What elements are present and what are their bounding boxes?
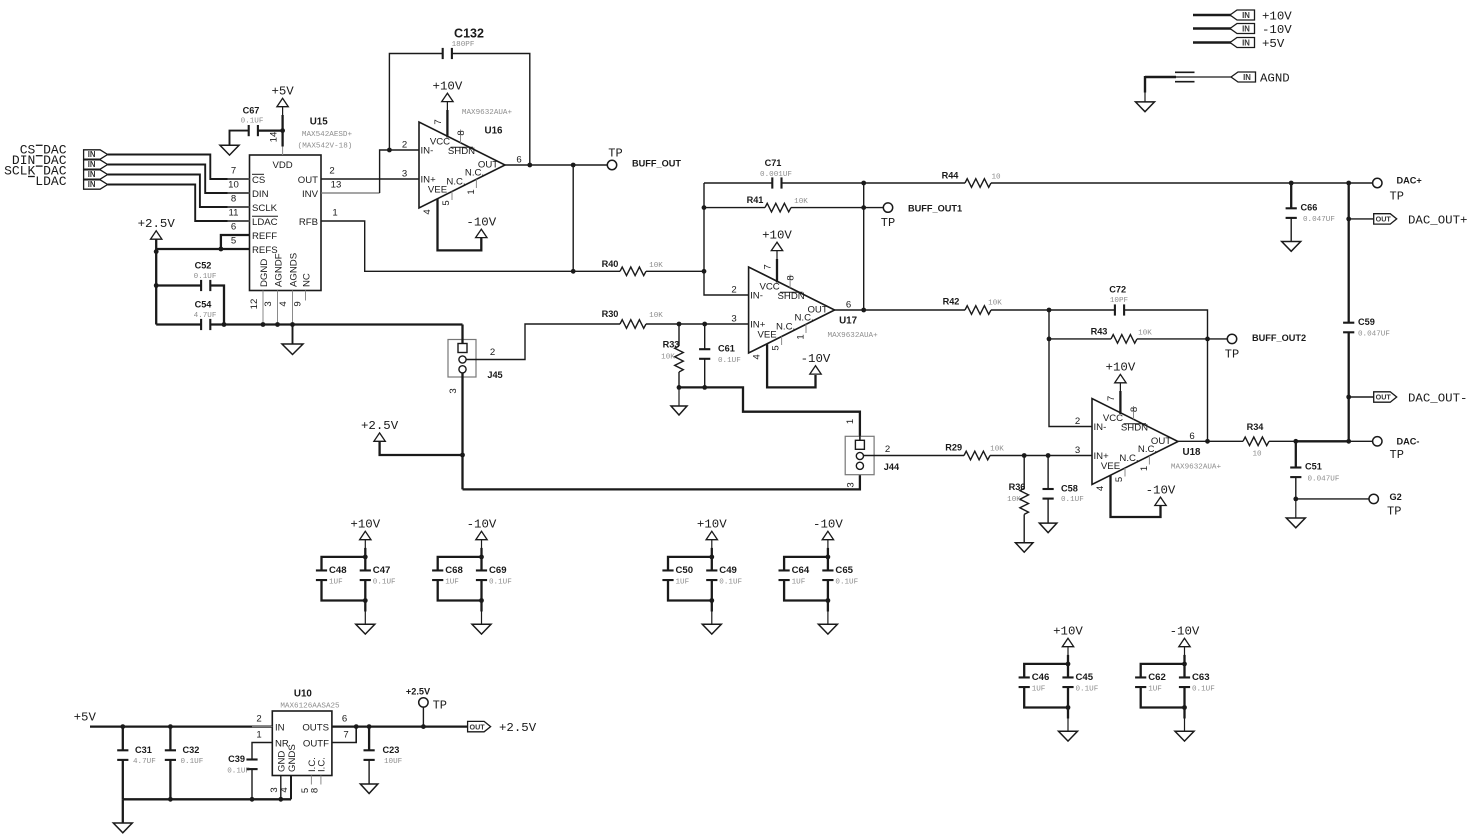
svg-text:C69: C69 xyxy=(489,565,507,576)
svg-text:IN: IN xyxy=(1242,11,1250,20)
svg-text:3: 3 xyxy=(846,482,857,487)
wire to R44 xyxy=(864,182,965,184)
power symbol -10V (decoupling group C64/C65) xyxy=(822,531,833,539)
svg-text:IN: IN xyxy=(275,722,285,733)
svg-text:2: 2 xyxy=(490,347,495,358)
svg-text:10: 10 xyxy=(991,174,1001,182)
svg-text:C61: C61 xyxy=(718,344,735,354)
port IN +5V xyxy=(1230,38,1255,48)
capacitor C54 xyxy=(200,319,202,330)
net-tie bars on AGND wire xyxy=(1175,71,1195,73)
resistor R43 xyxy=(1049,338,1111,340)
svg-text:TP: TP xyxy=(1225,348,1239,362)
svg-text:C31: C31 xyxy=(135,745,152,755)
svg-text:7: 7 xyxy=(433,119,444,124)
svg-text:NC: NC xyxy=(301,273,312,287)
capacitor C67 xyxy=(248,125,250,136)
svg-text:5: 5 xyxy=(441,200,452,205)
svg-text:C51: C51 xyxy=(1305,462,1322,472)
svg-text:10K: 10K xyxy=(661,354,675,362)
svg-text:C45: C45 xyxy=(1076,672,1094,683)
svg-text:+5V: +5V xyxy=(1262,37,1285,51)
svg-text:-10V: -10V xyxy=(801,352,831,366)
svg-text:0.1UF: 0.1UF xyxy=(241,118,264,126)
svg-text:R41: R41 xyxy=(747,195,764,205)
svg-text:5: 5 xyxy=(771,345,782,350)
svg-text:0.047UF: 0.047UF xyxy=(1358,331,1390,339)
resistor R29 xyxy=(964,451,990,460)
ground under C58 xyxy=(1039,523,1057,533)
overbar LDAC xyxy=(252,215,278,217)
svg-text:5: 5 xyxy=(1114,477,1125,482)
test point TP DAC- xyxy=(1373,437,1382,446)
capacitor C50 xyxy=(662,569,673,571)
svg-text:IN: IN xyxy=(1242,24,1250,33)
capacitor C65 xyxy=(822,569,833,571)
wire U18 OUT to R34 xyxy=(1178,440,1243,442)
U15 pin 3 AGNDF xyxy=(277,291,279,325)
svg-text:1UF: 1UF xyxy=(445,578,459,586)
svg-text:9: 9 xyxy=(293,301,304,306)
wire bottom rail to J44 pin 3 xyxy=(463,469,860,489)
wire U16 OUT down to R40 net xyxy=(572,165,574,271)
svg-text:4: 4 xyxy=(752,354,763,360)
svg-text:10K: 10K xyxy=(1138,329,1152,337)
power symbol +2.5V at J44 net xyxy=(374,433,385,441)
svg-text:7: 7 xyxy=(1106,396,1117,401)
op-amp U16 xyxy=(419,122,505,208)
power symbol +10V (decoupling group C48/C47) xyxy=(360,531,371,539)
svg-text:C132: C132 xyxy=(454,27,484,41)
svg-text:R33: R33 xyxy=(663,340,680,350)
wire U16 VEE to -10V xyxy=(438,199,482,251)
svg-text:1UF: 1UF xyxy=(1148,685,1162,693)
svg-text:5: 5 xyxy=(231,236,236,247)
svg-text:IN-: IN- xyxy=(1094,422,1107,433)
wire C65 to ground xyxy=(827,581,829,612)
svg-text:-10V: -10V xyxy=(1146,483,1176,497)
svg-text:J45: J45 xyxy=(487,370,502,380)
svg-text:+2.5V: +2.5V xyxy=(499,721,537,735)
svg-text:VEE: VEE xyxy=(757,329,776,340)
wire -10V to C69 xyxy=(481,540,483,559)
svg-text:G2: G2 xyxy=(1390,492,1402,502)
wire R29 to U18 IN+ xyxy=(990,455,1092,457)
ground xyxy=(356,624,375,634)
svg-text:MAX6126AASA25: MAX6126AASA25 xyxy=(280,703,340,711)
svg-text:R36: R36 xyxy=(1009,482,1026,492)
port IN AGND xyxy=(1231,72,1256,82)
svg-text:N.C.: N.C. xyxy=(1119,453,1138,464)
svg-text:10K: 10K xyxy=(794,198,808,206)
ground xyxy=(472,624,491,634)
capacitor C49 xyxy=(706,569,717,571)
svg-text:4: 4 xyxy=(422,209,433,215)
op-amp U17 xyxy=(749,267,835,353)
wire C66 to ground xyxy=(1290,218,1292,242)
wire C52 left xyxy=(156,284,201,286)
svg-text:BUFF_OUT2: BUFF_OUT2 xyxy=(1252,333,1306,343)
svg-text:R42: R42 xyxy=(943,297,960,307)
svg-text:+2.5V: +2.5V xyxy=(406,687,431,697)
connector J45 body xyxy=(448,340,476,378)
wire C47 to ground xyxy=(364,581,366,612)
capacitor C31 xyxy=(122,727,124,751)
svg-text:IN: IN xyxy=(88,150,96,159)
wire +10V to C45 xyxy=(1067,647,1069,666)
svg-text:VEE: VEE xyxy=(1101,461,1120,472)
svg-text:+10V: +10V xyxy=(1053,625,1083,639)
svg-text:IN: IN xyxy=(88,180,96,189)
svg-text:N.C.: N.C. xyxy=(795,313,814,324)
svg-text:6: 6 xyxy=(516,154,521,165)
wire U18 VEE to -10V xyxy=(1111,476,1161,518)
wire OUTS to +2.5V output xyxy=(332,725,468,727)
J44 pin 1 xyxy=(855,440,864,449)
svg-text:C52: C52 xyxy=(195,261,212,271)
svg-text:10K: 10K xyxy=(990,446,1004,454)
svg-text:IN-: IN- xyxy=(421,145,434,156)
svg-text:IN+: IN+ xyxy=(1094,451,1110,462)
svg-text:N.C.: N.C. xyxy=(446,176,465,187)
ground (AGND) xyxy=(1136,102,1155,112)
svg-text:1: 1 xyxy=(845,419,856,424)
ground under R36 xyxy=(1015,543,1032,553)
wire REFF branch xyxy=(221,235,250,249)
svg-text:U10: U10 xyxy=(294,689,313,700)
wire bottom rail C64 to C65 xyxy=(784,581,828,601)
svg-text:U17: U17 xyxy=(839,316,858,327)
U15 pin 9 NC xyxy=(305,291,307,301)
svg-text:TP: TP xyxy=(1387,505,1401,519)
svg-text:IN: IN xyxy=(88,160,96,169)
ground under C51 xyxy=(1286,518,1305,528)
svg-text:1UF: 1UF xyxy=(676,578,690,586)
capacitor C72 xyxy=(1114,304,1116,315)
U15 pin 12 DGND xyxy=(262,291,264,325)
svg-text:OUT: OUT xyxy=(298,175,318,186)
wire AGND input xyxy=(1145,76,1176,78)
svg-text:R40: R40 xyxy=(602,259,619,269)
svg-text:6: 6 xyxy=(342,714,347,725)
svg-text:8: 8 xyxy=(786,275,797,280)
wire ground rail into J45 pin 1 xyxy=(461,325,463,344)
svg-text:GNDS: GNDS xyxy=(287,744,298,772)
svg-text:13: 13 xyxy=(331,180,342,191)
svg-text:0.1UF: 0.1UF xyxy=(1076,685,1099,693)
port OUT DAC_OUT+ xyxy=(1374,214,1397,224)
resistor R36 xyxy=(1023,456,1025,489)
svg-text:R43: R43 xyxy=(1091,326,1108,336)
wire R33/C61 ground rail xyxy=(679,387,860,441)
wire C23 to ground xyxy=(368,760,370,784)
power symbol -10V at U17 xyxy=(810,366,821,374)
svg-text:10K: 10K xyxy=(649,262,663,270)
power symbol +10V (decoupling group C46/C45) xyxy=(1062,638,1073,646)
J45 pin 1 xyxy=(458,344,467,353)
svg-text:11: 11 xyxy=(229,208,239,219)
U15 pin 13 INV xyxy=(321,192,343,194)
svg-text:10UF: 10UF xyxy=(384,758,403,766)
wire U17 VEE to -10V xyxy=(767,344,815,387)
overbar CS xyxy=(252,173,264,175)
wire ground rail under U10 xyxy=(123,798,291,800)
ground xyxy=(1059,731,1078,741)
svg-text:0.1UF: 0.1UF xyxy=(835,578,858,586)
wire ground stub under C51 xyxy=(1295,499,1297,518)
svg-text:OUT: OUT xyxy=(470,722,486,731)
ground xyxy=(702,624,721,634)
J44 pin 2 xyxy=(856,452,863,459)
resistor R34 xyxy=(1243,437,1269,446)
wire U17 OUT to R42 xyxy=(835,309,965,311)
power symbol +10V (decoupling group C50/C49) xyxy=(706,531,717,539)
svg-text:TP: TP xyxy=(433,699,447,713)
U15 pin 10 DIN xyxy=(228,192,250,194)
power symbol -10V (decoupling group C62/C63) xyxy=(1179,638,1190,646)
wire J45 pin 2 to R30 xyxy=(466,324,620,360)
svg-text:6: 6 xyxy=(1189,431,1194,442)
svg-text:C59: C59 xyxy=(1358,317,1375,327)
svg-text:+10V: +10V xyxy=(1106,361,1136,375)
test point TP +2.5V xyxy=(419,698,428,707)
svg-text:N.C.: N.C. xyxy=(1138,444,1157,455)
capacitor C132 xyxy=(442,48,444,59)
svg-text:14: 14 xyxy=(269,131,280,142)
ground under C67 xyxy=(220,145,239,155)
svg-text:MAX9632AUA+: MAX9632AUA+ xyxy=(462,109,513,117)
svg-text:4: 4 xyxy=(279,787,290,793)
svg-text:7: 7 xyxy=(343,730,348,741)
svg-text:-10V: -10V xyxy=(1262,23,1292,37)
wire C132 right to U16 OUT xyxy=(452,54,530,166)
svg-text:U15: U15 xyxy=(310,116,329,127)
svg-text:7: 7 xyxy=(763,264,774,269)
wire R44 to DAC+ xyxy=(991,182,1373,184)
U15 pin 2 OUT xyxy=(321,178,343,180)
svg-text:(MAX542V-18): (MAX542V-18) xyxy=(298,143,353,151)
svg-text:2: 2 xyxy=(1075,416,1080,427)
wire U17 output riser xyxy=(863,183,865,310)
svg-text:MAX542AESD+: MAX542AESD+ xyxy=(302,131,353,139)
svg-text:10: 10 xyxy=(1252,451,1262,459)
svg-text:6: 6 xyxy=(231,222,236,233)
U15 pin 4 AGNDS xyxy=(292,291,294,325)
capacitor C66 xyxy=(1290,183,1292,208)
port IN -LDAC xyxy=(84,180,108,189)
wire +5V input xyxy=(1193,41,1231,43)
svg-text:R44: R44 xyxy=(942,171,960,181)
svg-text:2: 2 xyxy=(329,166,334,177)
wire NR to C39 xyxy=(252,743,272,760)
svg-text:+10V: +10V xyxy=(697,518,727,532)
wire +10V to C49 xyxy=(711,540,713,559)
wire R40 to U17 IN- riser xyxy=(646,270,704,272)
power symbol -10V at U18 xyxy=(1155,497,1166,505)
capacitor C46 xyxy=(1019,676,1030,678)
wire C67 to ground xyxy=(230,131,249,146)
wire +10V to U16 pin 7 xyxy=(446,102,448,112)
svg-text:MAX9632AUA+: MAX9632AUA+ xyxy=(1171,464,1222,472)
U10 pin 2 IN xyxy=(252,726,272,728)
port IN CS_DAC xyxy=(84,150,108,159)
svg-text:180PF: 180PF xyxy=(452,41,475,49)
wire C67 to VDD net xyxy=(258,129,283,131)
svg-text:10K: 10K xyxy=(649,312,663,320)
power symbol +10V at U17 xyxy=(771,242,782,250)
wire bottom rail C68 to C69 xyxy=(438,581,482,601)
svg-text:8: 8 xyxy=(456,130,467,135)
svg-text:AGNDS: AGNDS xyxy=(288,253,299,287)
svg-text:0.1UF: 0.1UF xyxy=(718,357,741,365)
svg-text:+10V: +10V xyxy=(350,518,380,532)
svg-text:LDAC: LDAC xyxy=(35,174,66,189)
svg-text:+5V: +5V xyxy=(74,711,97,725)
wire +10V to U17 pin 7 xyxy=(776,251,778,261)
svg-text:C54: C54 xyxy=(195,300,213,310)
svg-text:C32: C32 xyxy=(183,745,200,755)
svg-text:C48: C48 xyxy=(329,565,347,576)
wire C51 to G2/ground xyxy=(1295,477,1297,499)
svg-text:2: 2 xyxy=(256,714,261,725)
svg-text:2: 2 xyxy=(402,139,407,150)
wire +2.5V to J45 pin 3 net xyxy=(380,441,463,455)
svg-text:7: 7 xyxy=(231,166,236,177)
svg-text:R30: R30 xyxy=(602,309,619,319)
svg-text:+10V: +10V xyxy=(433,79,463,93)
power symbol +5V xyxy=(277,98,288,106)
svg-text:4.7UF: 4.7UF xyxy=(194,312,217,320)
svg-text:C62: C62 xyxy=(1148,672,1166,683)
wire SCLK_DAC to U15 xyxy=(108,175,250,208)
svg-text:3: 3 xyxy=(263,301,274,306)
capacitor C45 xyxy=(1062,676,1073,678)
svg-text:-10V: -10V xyxy=(466,215,496,229)
wire into J44 pin 1 xyxy=(859,412,861,441)
svg-text:1UF: 1UF xyxy=(329,578,343,586)
svg-text:IN: IN xyxy=(1242,38,1250,47)
wire -10V to C63 xyxy=(1184,647,1186,666)
wire top rail to C64 xyxy=(784,557,828,570)
wire bottom rail C62 to C63 xyxy=(1141,688,1185,708)
power symbol +10V at U16 xyxy=(442,93,453,101)
svg-text:0.1UF: 0.1UF xyxy=(489,578,512,586)
svg-text:C39: C39 xyxy=(228,754,245,764)
connector J44 body xyxy=(845,436,874,474)
svg-text:1: 1 xyxy=(1139,466,1150,471)
svg-text:R29: R29 xyxy=(945,443,962,453)
ground xyxy=(1175,731,1194,741)
U15 pin 6 REFF xyxy=(228,234,250,236)
resistor R42 xyxy=(965,306,991,315)
wire +10V to C47 xyxy=(364,540,366,559)
capacitor C64 xyxy=(779,569,790,571)
wire REFS net xyxy=(156,248,249,250)
svg-text:+10V: +10V xyxy=(1262,9,1292,23)
svg-text:C49: C49 xyxy=(719,565,737,576)
test point TP BUFF_OUT xyxy=(607,160,616,169)
svg-text:N.C.: N.C. xyxy=(465,168,484,179)
svg-text:DIN: DIN xyxy=(252,189,269,200)
wire DAC_OUT+ tap xyxy=(1349,218,1374,220)
test point TP DAC+ xyxy=(1373,178,1382,187)
svg-text:DAC-: DAC- xyxy=(1397,436,1420,446)
svg-text:LDAC: LDAC xyxy=(252,217,278,228)
svg-text:DAC_OUT-: DAC_OUT- xyxy=(1408,392,1468,406)
port IN SCLK_DAC xyxy=(84,170,108,179)
capacitor C63 xyxy=(1179,676,1190,678)
wire -LDAC to U15 xyxy=(108,185,250,222)
power symbol -10V (decoupling group C68/C69) xyxy=(476,531,487,539)
resistor R33 xyxy=(678,324,680,346)
wire analog ground rail under U15 xyxy=(210,323,462,325)
svg-text:1: 1 xyxy=(796,334,807,339)
capacitor C52 xyxy=(200,280,202,291)
capacitor C47 xyxy=(360,569,371,571)
svg-text:4.7UF: 4.7UF xyxy=(133,758,156,766)
wire R34 to DAC- xyxy=(1269,440,1296,442)
svg-text:OUTS: OUTS xyxy=(302,722,329,733)
svg-text:BUFF_OUT1: BUFF_OUT1 xyxy=(908,203,962,213)
svg-text:1UF: 1UF xyxy=(792,578,806,586)
svg-text:4: 4 xyxy=(1095,485,1106,491)
wire CS_DAC to U15 xyxy=(108,155,250,180)
svg-text:3: 3 xyxy=(448,388,459,393)
op-amp U18 xyxy=(1092,399,1178,485)
svg-text:AGNDF: AGNDF xyxy=(273,253,284,287)
U10 pin 4 GNDS xyxy=(290,776,292,800)
svg-text:RFB: RFB xyxy=(299,217,318,228)
svg-text:C50: C50 xyxy=(676,565,694,576)
wire R42 to C72 and U18 riser xyxy=(991,309,1115,311)
wire C69 to ground xyxy=(480,581,482,612)
capacitor C62 xyxy=(1135,676,1146,678)
capacitor C23 xyxy=(368,727,370,751)
svg-text:IN+: IN+ xyxy=(750,319,766,330)
ground under U15 xyxy=(282,344,303,355)
U10 pin 5 I.C. xyxy=(310,776,312,785)
power symbol +10V at U18 xyxy=(1115,374,1126,382)
capacitor C68 xyxy=(432,569,443,571)
wire C132 left to U16 IN- xyxy=(389,54,442,151)
svg-text:C71: C71 xyxy=(765,158,782,168)
svg-text:DAC+: DAC+ xyxy=(1397,176,1422,186)
svg-text:3: 3 xyxy=(731,313,736,324)
port IN +10V xyxy=(1230,10,1255,20)
wire U16 OUT to TP BUFF_OUT xyxy=(505,164,607,166)
wire bottom rail C50 to C49 xyxy=(668,581,712,601)
wire C59 down to DAC- row xyxy=(1348,332,1350,441)
svg-text:IN+: IN+ xyxy=(421,174,437,185)
test point TP BUFF_OUT2 xyxy=(1227,334,1236,343)
wire +10V input xyxy=(1193,14,1231,16)
wire C52 right to C54 right xyxy=(210,286,224,325)
svg-text:C68: C68 xyxy=(445,565,463,576)
J44 pin 3 xyxy=(856,462,863,469)
svg-text:-10V: -10V xyxy=(467,518,497,532)
wire bottom rail C48 to C47 xyxy=(322,581,366,601)
svg-text:12: 12 xyxy=(249,299,260,310)
resistor R44 xyxy=(965,179,991,188)
U15 pin 1 RFB xyxy=(321,220,343,222)
wire top rail to C68 xyxy=(438,557,482,570)
capacitor C61 xyxy=(704,324,706,349)
svg-text:OUT: OUT xyxy=(1376,215,1392,224)
wire +5V rail xyxy=(90,725,272,727)
svg-text:CS: CS xyxy=(252,175,265,186)
wire C63 to ground xyxy=(1183,688,1185,719)
J45 pin 3 xyxy=(459,366,466,373)
